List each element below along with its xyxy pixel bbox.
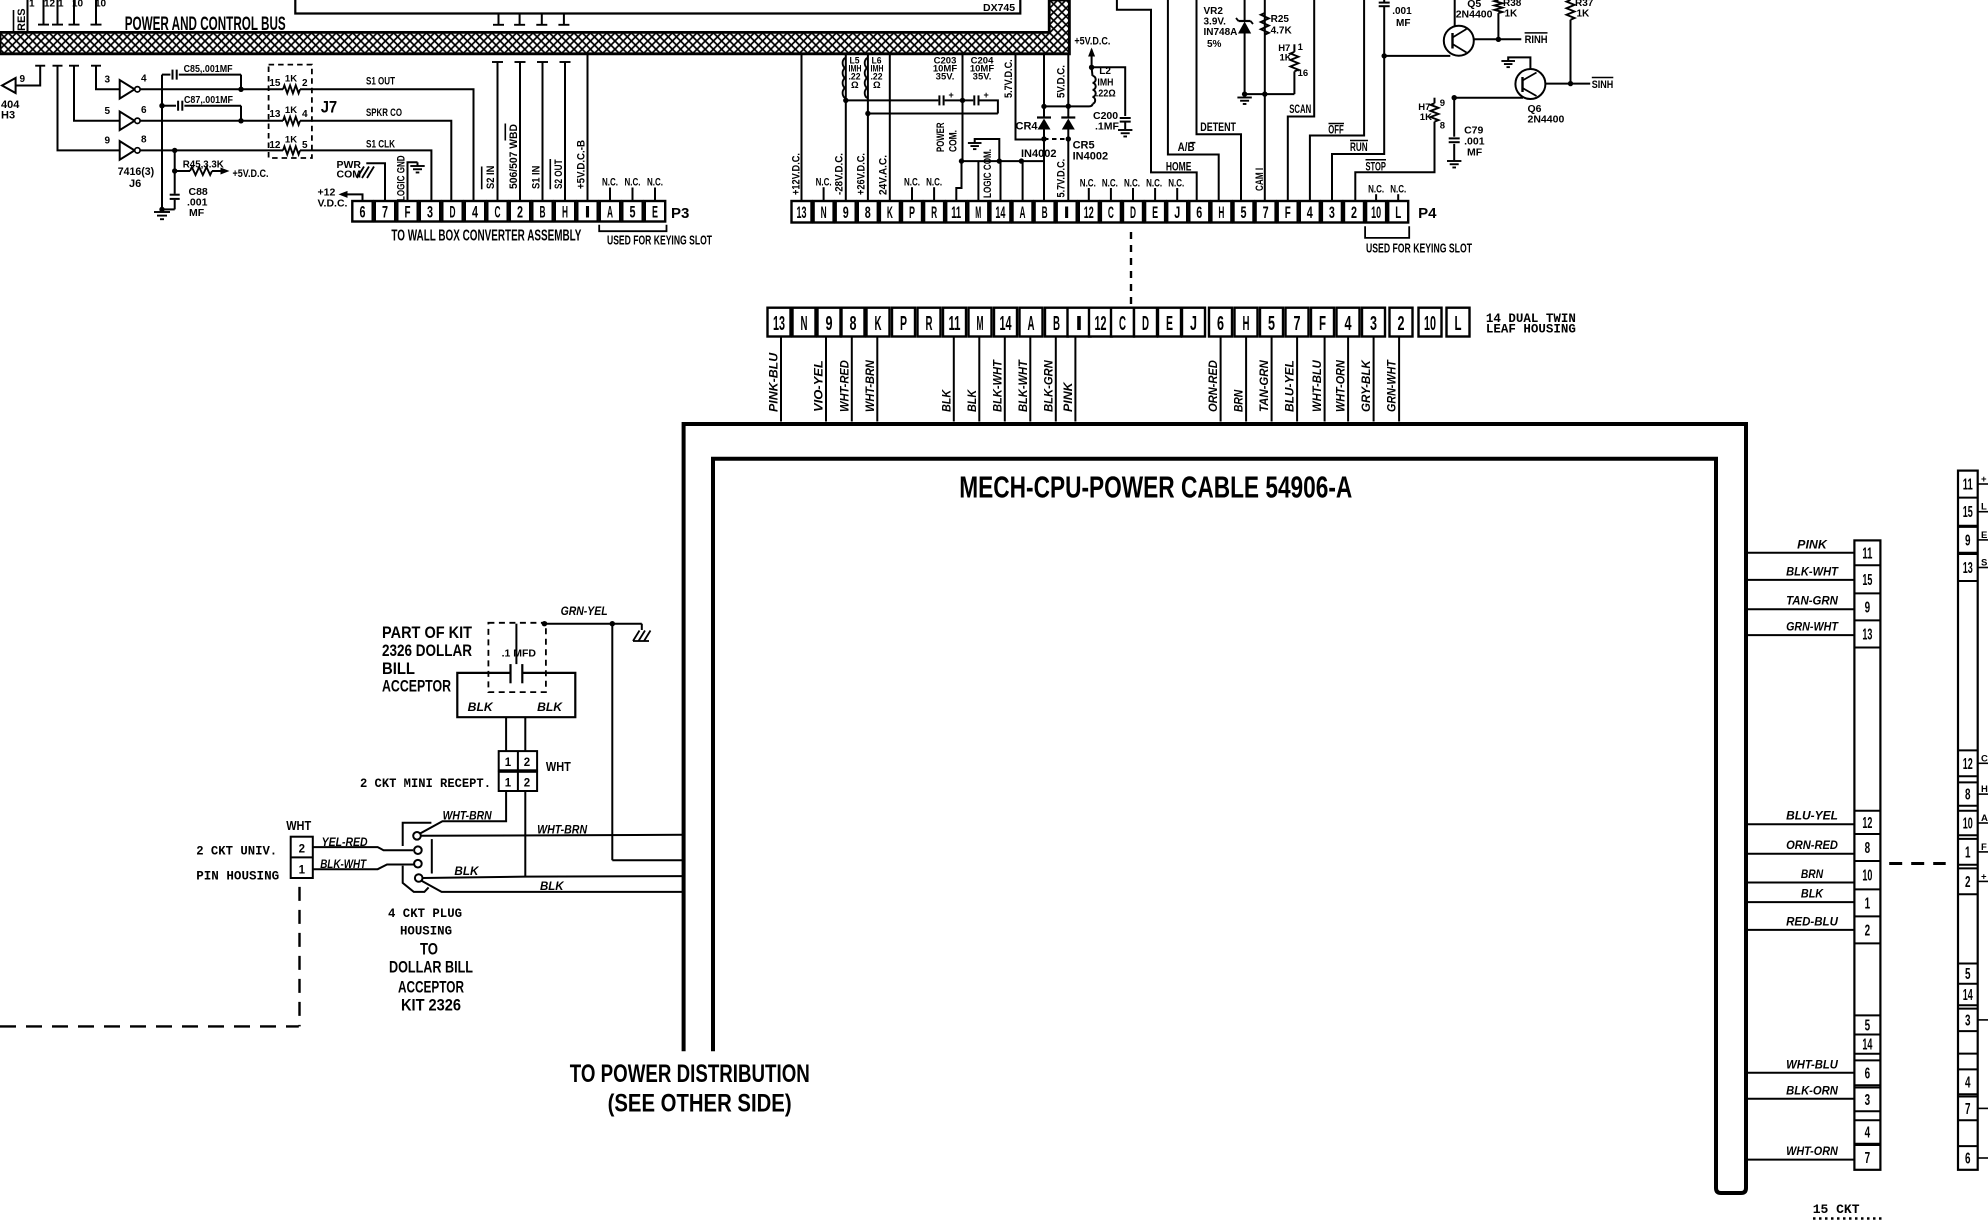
svg-text:2 CKT UNIV.: 2 CKT UNIV. [196, 844, 277, 859]
svg-text:.1MF: .1MF [1095, 121, 1120, 133]
svg-text:BLK: BLK [468, 700, 494, 714]
svg-text:OFF: OFF [1328, 124, 1344, 136]
svg-text:15: 15 [1963, 504, 1973, 521]
svg-text:K: K [887, 203, 893, 222]
svg-text:2: 2 [517, 203, 523, 222]
svg-text:13: 13 [773, 313, 785, 335]
svg-text:-28V.D.C.: -28V.D.C. [834, 153, 846, 195]
svg-text:+5V.D.C.: +5V.D.C. [233, 168, 269, 180]
svg-text:2: 2 [299, 844, 305, 856]
svg-text:WHT-BLU: WHT-BLU [1786, 1059, 1838, 1071]
svg-text:M: M [975, 203, 981, 222]
svg-text:C: C [495, 203, 501, 222]
svg-text:MF: MF [189, 207, 205, 219]
svg-text:4: 4 [1865, 1125, 1871, 1142]
svg-text:11: 11 [1963, 477, 1973, 494]
svg-text:9: 9 [20, 74, 26, 85]
svg-text:15: 15 [1862, 572, 1872, 589]
svg-text:VIO-YEL: VIO-YEL [814, 360, 826, 412]
svg-text:RUN: RUN [1350, 142, 1368, 154]
svg-text:9: 9 [1865, 599, 1871, 616]
svg-text:2: 2 [302, 78, 308, 89]
svg-text:.22Ω: .22Ω [1096, 89, 1116, 100]
svg-text:PIN HOUSING: PIN HOUSING [196, 869, 279, 884]
svg-text:5: 5 [1268, 313, 1275, 335]
svg-text:PINK-BLU: PINK-BLU [769, 352, 781, 412]
svg-text:J: J [1190, 313, 1197, 335]
svg-text:F: F [1319, 313, 1326, 335]
svg-text:LEAF HOUSING: LEAF HOUSING [1486, 323, 1576, 337]
svg-text:N.C.: N.C. [1124, 178, 1140, 190]
svg-text:BLK: BLK [454, 864, 479, 878]
svg-text:14: 14 [1963, 987, 1973, 1004]
svg-text:C87,.001MF: C87,.001MF [184, 95, 233, 106]
svg-text:N.C.: N.C. [1080, 178, 1096, 190]
svg-text:N.C.: N.C. [904, 177, 920, 189]
svg-text:H: H [1218, 203, 1224, 222]
svg-text:4 CKT PLUG: 4 CKT PLUG [388, 906, 462, 921]
svg-text:CR4: CR4 [1016, 121, 1039, 133]
svg-text:10: 10 [95, 0, 107, 10]
svg-text:YEL-RED: YEL-RED [322, 835, 368, 849]
svg-text:5: 5 [630, 203, 636, 222]
svg-text:GRY-BLK: GRY-BLK [1361, 360, 1373, 412]
svg-text:1: 1 [29, 0, 35, 10]
svg-text:9: 9 [826, 313, 833, 335]
svg-text:KIT 2326: KIT 2326 [401, 996, 461, 1015]
svg-text:A/B: A/B [1178, 142, 1195, 154]
svg-text:IMH: IMH [1097, 78, 1113, 89]
svg-text:USED FOR KEYING SLOT: USED FOR KEYING SLOT [607, 234, 712, 248]
svg-text:B: B [1053, 313, 1060, 335]
svg-text:N.C.: N.C. [602, 177, 618, 189]
svg-text:CAM I: CAM I [1254, 168, 1266, 191]
svg-text:9: 9 [1440, 98, 1445, 109]
svg-text:BLK-WHT: BLK-WHT [1018, 359, 1030, 412]
svg-text:5: 5 [1241, 203, 1247, 222]
svg-text:+: + [1981, 871, 1987, 882]
svg-text:DOLLAR BILL: DOLLAR BILL [389, 958, 473, 977]
svg-text:BLK: BLK [537, 700, 563, 714]
svg-text:D: D [450, 203, 456, 222]
svg-text:3: 3 [104, 75, 110, 86]
svg-text:4: 4 [1345, 313, 1353, 335]
svg-text:C: C [1981, 753, 1988, 764]
svg-text:8: 8 [1865, 840, 1871, 857]
svg-text:POWER AND CONTROL BUS: POWER AND CONTROL BUS [125, 13, 286, 35]
svg-text:5: 5 [1865, 1018, 1871, 1035]
svg-text:4: 4 [1965, 1074, 1971, 1091]
svg-text:.1 MFD: .1 MFD [502, 648, 537, 660]
svg-text:6: 6 [1217, 313, 1224, 335]
svg-text:24V.A.C.: 24V.A.C. [878, 155, 890, 195]
svg-text:C85,.001MF: C85,.001MF [184, 64, 233, 75]
svg-text:SPKR CO: SPKR CO [366, 107, 402, 119]
svg-text:4: 4 [302, 109, 308, 120]
svg-text:I: I [585, 203, 591, 222]
svg-text:5.7V.D.C.: 5.7V.D.C. [1056, 159, 1068, 198]
svg-text:1K: 1K [285, 135, 297, 146]
svg-text:1: 1 [1865, 895, 1871, 912]
svg-text:2N4400: 2N4400 [1456, 9, 1493, 21]
svg-text:H: H [562, 203, 568, 222]
svg-text:5: 5 [302, 140, 308, 151]
svg-text:S2 IN: S2 IN [485, 166, 497, 189]
svg-text:3: 3 [1965, 1012, 1971, 1029]
svg-text:10: 10 [1963, 816, 1973, 833]
svg-text:IN4002: IN4002 [1021, 148, 1056, 160]
svg-text:WHT: WHT [546, 759, 571, 774]
svg-text:+: + [984, 90, 989, 100]
svg-text:J7: J7 [321, 98, 338, 117]
svg-text:1: 1 [1298, 42, 1304, 53]
svg-text:BLK: BLK [540, 879, 565, 893]
svg-text:GRN-WHT: GRN-WHT [1387, 359, 1399, 412]
svg-text:USED FOR KEYING SLOT: USED FOR KEYING SLOT [1366, 242, 1472, 256]
svg-text:2: 2 [524, 757, 530, 769]
svg-text:7: 7 [1865, 1150, 1871, 1167]
svg-text:WHT-BRN: WHT-BRN [537, 823, 587, 837]
svg-text:14: 14 [995, 203, 1005, 222]
svg-text:1K: 1K [285, 105, 297, 116]
svg-text:2: 2 [1865, 922, 1871, 939]
svg-text:ORN-RED: ORN-RED [1208, 360, 1220, 412]
svg-text:L: L [1395, 203, 1401, 222]
svg-text:P: P [909, 203, 915, 222]
svg-text:N.C.: N.C. [816, 177, 832, 189]
svg-text:35V.: 35V. [936, 72, 955, 83]
svg-text:Ω: Ω [873, 80, 881, 91]
svg-text:A: A [1981, 813, 1988, 824]
svg-text:P: P [900, 313, 907, 335]
svg-text:M: M [977, 313, 984, 335]
svg-text:N.C.: N.C. [1390, 184, 1406, 196]
svg-text:TO POWER DISTRIBUTION: TO POWER DISTRIBUTION [570, 1060, 810, 1088]
svg-text:1K: 1K [1280, 53, 1292, 64]
svg-text:+: + [949, 90, 954, 100]
svg-text:2: 2 [1965, 874, 1971, 891]
svg-text:N.C.: N.C. [1368, 184, 1384, 196]
svg-text:STOP: STOP [1366, 162, 1387, 174]
svg-text:N.C.: N.C. [926, 177, 942, 189]
svg-text:N.C.: N.C. [1168, 178, 1184, 190]
svg-text:SINH: SINH [1592, 79, 1614, 91]
svg-text:10: 10 [1862, 868, 1872, 885]
svg-text:5V.D.C.: 5V.D.C. [1056, 65, 1068, 98]
svg-text:2N4400: 2N4400 [1528, 114, 1565, 126]
svg-text:BLK: BLK [967, 389, 979, 412]
svg-text:D: D [1142, 313, 1149, 335]
svg-text:L: L [1455, 313, 1462, 335]
svg-text:S: S [1981, 558, 1987, 569]
svg-text:12: 12 [1084, 203, 1094, 222]
svg-text:6: 6 [1865, 1065, 1871, 1082]
svg-text:9: 9 [104, 136, 110, 147]
svg-text:A: A [1020, 203, 1026, 222]
svg-text:1: 1 [58, 0, 64, 10]
svg-text:13: 13 [797, 203, 807, 222]
svg-text:J6: J6 [129, 178, 141, 190]
svg-text:7416(3): 7416(3) [118, 166, 155, 178]
svg-text:PINK: PINK [1063, 382, 1075, 412]
svg-text:H: H [1981, 784, 1988, 795]
svg-text:F: F [1981, 842, 1987, 853]
svg-text:3: 3 [1370, 313, 1377, 335]
svg-text:DETENT: DETENT [1200, 122, 1236, 134]
svg-text:2: 2 [1398, 313, 1405, 335]
svg-text:4: 4 [1307, 203, 1313, 222]
svg-text:5%: 5% [1207, 39, 1222, 50]
svg-text:HOUSING: HOUSING [400, 924, 452, 939]
svg-text:12: 12 [1862, 815, 1872, 832]
svg-text:506/507 WBD: 506/507 WBD [508, 124, 520, 189]
svg-text:7: 7 [1263, 203, 1269, 222]
svg-text:HOME: HOME [1166, 162, 1192, 174]
svg-text:2: 2 [524, 778, 530, 790]
svg-text:L: L [1981, 502, 1987, 513]
svg-text:I: I [1064, 203, 1070, 222]
svg-text:S1 IN: S1 IN [531, 166, 543, 189]
svg-text:I: I [1076, 313, 1083, 335]
svg-text:+26V.D.C.: +26V.D.C. [856, 153, 868, 195]
svg-text:VR2: VR2 [1204, 6, 1224, 17]
svg-text:ACCEPTOR: ACCEPTOR [398, 978, 464, 997]
svg-text:7: 7 [1294, 313, 1301, 335]
svg-text:D: D [1130, 203, 1136, 222]
svg-text:GRN-WHT: GRN-WHT [1786, 622, 1839, 634]
svg-text:3: 3 [427, 203, 433, 222]
svg-text:35V.: 35V. [973, 72, 992, 83]
svg-text:E: E [1152, 203, 1158, 222]
svg-text:1: 1 [505, 757, 512, 769]
svg-text:P3: P3 [671, 205, 689, 222]
svg-text:R: R [926, 313, 933, 335]
svg-text:P4: P4 [1418, 205, 1437, 222]
svg-text:1: 1 [505, 778, 512, 790]
svg-text:BLK-WHT: BLK-WHT [992, 359, 1004, 412]
svg-text:14: 14 [1000, 313, 1012, 335]
svg-text:BLK: BLK [941, 389, 953, 412]
svg-text:LOGIC COM.: LOGIC COM. [982, 149, 994, 198]
svg-text:MF: MF [1396, 18, 1410, 29]
svg-text:+: + [1981, 474, 1987, 485]
svg-text:B: B [1042, 203, 1048, 222]
svg-text:BLK-WHT: BLK-WHT [1786, 566, 1839, 578]
svg-text:12: 12 [1963, 756, 1973, 773]
svg-text:TAN-GRN: TAN-GRN [1786, 596, 1838, 608]
svg-text:+5V.D.C.-B: +5V.D.C.-B [576, 140, 588, 189]
svg-text:H: H [1243, 313, 1250, 335]
svg-text:BRN: BRN [1801, 869, 1824, 881]
svg-text:7: 7 [382, 203, 388, 222]
svg-text:12: 12 [269, 140, 281, 151]
svg-text:TO WALL BOX CONVERTER ASSEMBLY: TO WALL BOX CONVERTER ASSEMBLY [391, 228, 581, 245]
svg-text:(SEE OTHER SIDE): (SEE OTHER SIDE) [608, 1090, 792, 1118]
svg-text:PART OF KIT: PART OF KIT [382, 623, 473, 642]
svg-text:N: N [821, 203, 827, 222]
svg-text:2: 2 [1351, 203, 1357, 222]
svg-text:RINH: RINH [1525, 34, 1548, 46]
svg-text:COM: COM [337, 169, 362, 181]
svg-text:WHT-RED: WHT-RED [839, 360, 851, 412]
svg-text:ORN-RED: ORN-RED [1786, 840, 1838, 852]
svg-text:LOGIC GND: LOGIC GND [396, 155, 408, 201]
svg-text:MECH-CPU-POWER CABLE 54906-A: MECH-CPU-POWER CABLE 54906-A [959, 470, 1352, 505]
svg-text:6: 6 [1965, 1151, 1971, 1168]
svg-text:BRN: BRN [1234, 389, 1246, 412]
svg-text:B: B [540, 203, 546, 222]
svg-text:DX745: DX745 [983, 2, 1015, 14]
svg-text:16: 16 [1298, 68, 1309, 79]
svg-text:5: 5 [104, 106, 110, 117]
svg-text:.001: .001 [1392, 6, 1412, 17]
svg-text:1K: 1K [1420, 112, 1432, 123]
svg-text:E: E [1166, 313, 1173, 335]
svg-text:S1 OUT: S1 OUT [366, 76, 395, 88]
svg-text:WHT-ORN: WHT-ORN [1336, 360, 1348, 412]
svg-text:11: 11 [949, 313, 961, 335]
svg-text:R25: R25 [1271, 14, 1290, 25]
svg-text:15 CKT: 15 CKT [1813, 1202, 1860, 1217]
svg-text:BLK-GRN: BLK-GRN [1043, 360, 1055, 412]
svg-text:5: 5 [1965, 966, 1971, 983]
svg-text:V.D.C.: V.D.C. [318, 198, 348, 210]
svg-text:ACCEPTOR: ACCEPTOR [382, 677, 451, 696]
svg-text:N.C.: N.C. [625, 177, 641, 189]
svg-text:+5V.D.C.: +5V.D.C. [1074, 36, 1110, 48]
svg-text:WHT-ORN: WHT-ORN [1786, 1146, 1838, 1158]
svg-text:13: 13 [1963, 560, 1973, 577]
svg-text:S1 CLK: S1 CLK [366, 139, 395, 151]
svg-text:10: 10 [1424, 313, 1436, 335]
svg-text:N.C.: N.C. [1146, 178, 1162, 190]
svg-text:S2 OUT: S2 OUT [553, 159, 565, 189]
svg-text:BILL: BILL [382, 659, 415, 678]
svg-text:BLK-WHT: BLK-WHT [320, 857, 367, 871]
svg-text:R: R [931, 203, 937, 222]
svg-text:10: 10 [72, 0, 84, 10]
svg-text:N: N [801, 313, 808, 335]
svg-text:3: 3 [1329, 203, 1335, 222]
svg-text:BLK-ORN: BLK-ORN [1786, 1085, 1838, 1097]
svg-text:12: 12 [44, 0, 56, 10]
svg-text:J: J [1174, 203, 1180, 222]
svg-text:IN4002: IN4002 [1073, 151, 1108, 163]
svg-text:1K: 1K [1505, 9, 1519, 20]
svg-text:WHT: WHT [286, 818, 311, 833]
svg-text:PINK: PINK [1797, 539, 1827, 551]
svg-text:BLU-YEL: BLU-YEL [1786, 811, 1838, 823]
svg-text:2326 DOLLAR: 2326 DOLLAR [382, 641, 472, 660]
svg-text:1K: 1K [285, 74, 297, 85]
svg-text:C: C [1108, 203, 1114, 222]
svg-text:3: 3 [1865, 1092, 1871, 1109]
svg-text:4: 4 [141, 74, 147, 85]
svg-text:12: 12 [1095, 313, 1107, 335]
svg-text:E: E [652, 203, 658, 222]
svg-text:L2: L2 [1099, 66, 1111, 77]
svg-text:6: 6 [141, 105, 147, 116]
svg-text:2 CKT MINI RECEPT.: 2 CKT MINI RECEPT. [360, 776, 491, 791]
svg-text:13: 13 [269, 109, 281, 120]
svg-text:4: 4 [472, 203, 478, 222]
svg-text:A: A [1028, 313, 1035, 335]
svg-text:Ω: Ω [851, 80, 859, 91]
svg-text:8: 8 [141, 135, 147, 146]
svg-text:R45,3.3K: R45,3.3K [183, 160, 225, 171]
svg-text:N.C.: N.C. [1102, 178, 1118, 190]
svg-text:+12V.D.C.: +12V.D.C. [791, 153, 803, 195]
svg-text:7: 7 [1965, 1101, 1971, 1118]
svg-text:1: 1 [299, 865, 306, 877]
svg-text:11: 11 [1862, 545, 1872, 562]
svg-text:GRN-YEL: GRN-YEL [561, 604, 608, 618]
svg-text:K: K [875, 313, 882, 335]
svg-text:1K: 1K [1577, 9, 1591, 20]
svg-text:WHT-BLU: WHT-BLU [1312, 360, 1324, 412]
svg-text:11: 11 [951, 203, 961, 222]
svg-text:3.9V.: 3.9V. [1204, 17, 1227, 28]
svg-text:BLU-YEL: BLU-YEL [1285, 360, 1297, 412]
svg-text:SCAN: SCAN [1289, 104, 1311, 116]
svg-text:N.C.: N.C. [647, 177, 663, 189]
svg-text:TAN-GRN: TAN-GRN [1259, 360, 1271, 412]
svg-text:IN748A: IN748A [1204, 27, 1238, 38]
svg-text:WHT-BRN: WHT-BRN [865, 360, 877, 412]
svg-text:COM.: COM. [948, 130, 960, 152]
svg-text:F: F [405, 203, 411, 222]
svg-text:BLK: BLK [1801, 889, 1824, 901]
svg-text:H3: H3 [1, 110, 15, 122]
svg-text:RED-BLU: RED-BLU [1786, 916, 1838, 928]
svg-text:WHT-BRN: WHT-BRN [443, 809, 492, 823]
svg-text:MF: MF [1467, 147, 1483, 159]
svg-text:POWER: POWER [935, 122, 947, 152]
svg-text:15: 15 [269, 78, 281, 89]
svg-text:TO: TO [420, 940, 438, 959]
svg-text:8: 8 [1965, 787, 1971, 804]
svg-text:8: 8 [850, 313, 857, 335]
svg-text:6: 6 [1196, 203, 1202, 222]
svg-text:8: 8 [1440, 121, 1445, 132]
svg-text:8: 8 [865, 203, 871, 222]
svg-text:13: 13 [1862, 627, 1872, 644]
svg-text:10: 10 [1371, 203, 1381, 222]
svg-text:A: A [607, 203, 613, 222]
svg-text:F: F [1285, 203, 1291, 222]
svg-text:9: 9 [843, 203, 849, 222]
svg-text:RES: RES [16, 8, 28, 31]
svg-text:6: 6 [360, 203, 366, 222]
svg-text:5.7V.D.C.: 5.7V.D.C. [1003, 59, 1015, 98]
svg-text:4.7K: 4.7K [1271, 26, 1293, 37]
svg-text:1: 1 [1965, 844, 1971, 861]
svg-text:9: 9 [1965, 532, 1971, 549]
svg-text:14: 14 [1862, 1037, 1872, 1054]
svg-text:E: E [1981, 530, 1987, 541]
svg-text:C: C [1119, 313, 1126, 335]
